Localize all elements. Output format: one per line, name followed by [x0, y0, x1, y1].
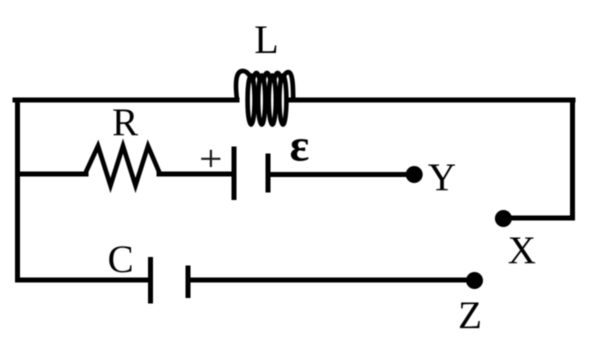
inductor L coil ovals [248, 75, 287, 124]
wire middle-left to resistor [18, 172, 87, 177]
wire resistor to battery [159, 172, 232, 177]
svg-text:C: C [108, 238, 134, 281]
inductor L coil top humps [236, 71, 293, 100]
svg-text:L: L [254, 17, 278, 62]
terminal dot Y [406, 166, 423, 183]
plus sign [201, 150, 220, 167]
wire battery to Y dot [270, 172, 414, 177]
battery long plate (+) [232, 147, 237, 201]
svg-text:R: R [112, 101, 138, 144]
svg-text:Y: Y [428, 156, 456, 199]
svg-text:ε: ε [290, 119, 310, 170]
wire switch branch to X dot [504, 216, 573, 221]
capacitor C right plate [186, 266, 191, 299]
resistor R zigzag [85, 146, 160, 186]
svg-text:Z: Z [458, 294, 482, 337]
terminal dot Z [466, 272, 483, 289]
svg-text:X: X [508, 229, 536, 272]
wire left vertical [15, 100, 20, 280]
wire right vertical [570, 100, 575, 218]
terminal dot X [495, 210, 512, 227]
wire bottom-left to capacitor [18, 278, 149, 283]
battery short plate [266, 154, 271, 193]
wire top-right horizontal [287, 98, 573, 103]
wire top-left horizontal [15, 98, 237, 103]
wire capacitor to Z dot [190, 278, 475, 283]
capacitor C left plate [148, 257, 153, 304]
